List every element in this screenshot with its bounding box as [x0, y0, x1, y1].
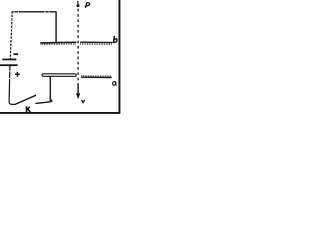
wire lower-right (switch up to lower plate) [49, 76, 51, 102]
hatch below upper-left plate [41, 43, 77, 46]
tick above point P [77, 1, 79, 4]
junction blob at lead corner [50, 99, 53, 102]
label K [27, 106, 31, 112]
label P [85, 3, 89, 8]
label a [113, 82, 117, 86]
lower plate left half (hollow bar) [42, 74, 76, 77]
battery positive (long) plate [0, 64, 18, 66]
wire upper (top wire down to upper plate) [55, 12, 57, 43]
frame bottom border [0, 112, 120, 114]
dashed trajectory line [77, 9, 79, 86]
battery negative (short) plate [2, 59, 16, 61]
switch K right contact lead [35, 102, 50, 104]
upper plate left half [40, 41, 76, 44]
label plus [15, 72, 20, 77]
upper plate right half [80, 41, 113, 43]
point P dot [77, 4, 80, 7]
switch K blade [15, 95, 36, 104]
velocity arrow shaft [77, 85, 79, 94]
wire lower-left (battery to switch corner) [9, 66, 15, 104]
label b [114, 36, 118, 43]
velocity arrow head [76, 93, 80, 99]
hatch below upper-right plate [80, 43, 112, 45]
lower plate right half [81, 76, 112, 78]
wire top (battery to upper plate) [12, 11, 56, 13]
frame right border [119, 0, 121, 114]
label v [82, 100, 85, 103]
label minus [13, 53, 18, 55]
hatch above lower-right plate [81, 75, 111, 77]
wire left (down to battery top terminal) [10, 11, 12, 59]
